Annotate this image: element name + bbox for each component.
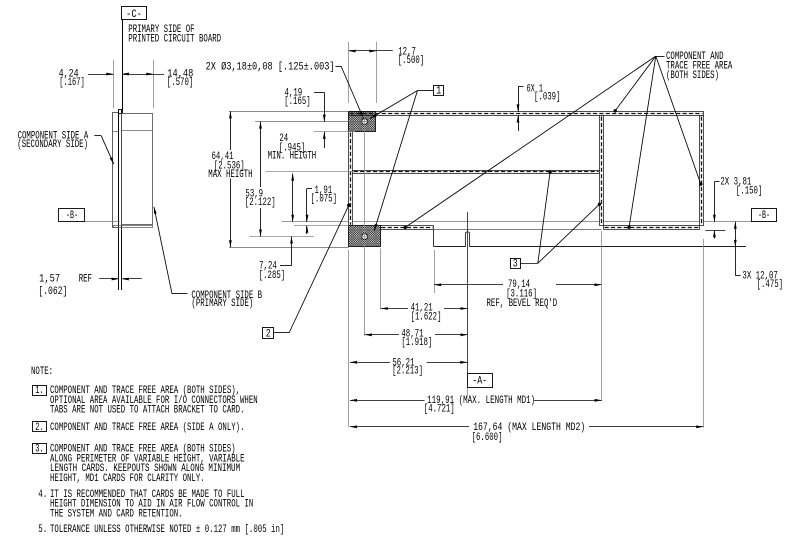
note 1: [33, 386, 47, 396]
svg-text:HEIGHT, MD1 CARDS FOR CLARITY: HEIGHT, MD1 CARDS FOR CLARITY ONLY.: [50, 473, 205, 485]
dimension 56.21 [2.213]: [350, 362, 390, 364]
note 3: [33, 444, 47, 454]
svg-text:TOLERANCE UNLESS OTHERWISE NOT: TOLERANCE UNLESS OTHERWISE NOTED ± 0.127…: [50, 524, 284, 536]
card left keepout strip: [349, 132, 353, 226]
svg-text:[.475]: [.475]: [757, 279, 784, 291]
svg-text:(SECONDARY SIDE): (SECONDARY SIDE): [17, 139, 88, 151]
svg-text:[.570]: [.570]: [167, 77, 194, 89]
extension lines for 12.7: [348, 42, 350, 103]
svg-text:3: 3: [513, 258, 518, 270]
card top keepout strip: [349, 112, 704, 116]
note 2: [33, 422, 47, 432]
middle strip extension line: [266, 171, 353, 173]
svg-text:-C-: -C-: [126, 9, 142, 21]
mounting hole bottom: [362, 234, 368, 240]
divider extension line down: [601, 231, 603, 401]
svg-text:(PRIMARY SIDE): (PRIMARY SIDE): [191, 298, 253, 310]
svg-text:[2.213]: [2.213]: [392, 366, 423, 378]
extension below -A- box: [467, 388, 469, 396]
right bottom tick for 3.81: [705, 230, 725, 232]
bottom-left mounting tab block: [349, 226, 381, 247]
datum -B- label box right: [752, 209, 777, 222]
connector bevel line: [434, 229, 602, 231]
svg-text:(BOTH SIDES): (BOTH SIDES): [666, 70, 719, 82]
svg-text:[.150]: [.150]: [736, 185, 763, 197]
svg-text:5.: 5.: [38, 524, 47, 536]
svg-text:[.167]: [.167]: [59, 77, 84, 89]
connector key notch: [465, 232, 469, 247]
svg-text:-A-: -A-: [472, 375, 487, 387]
svg-text:[1.622]: [1.622]: [411, 312, 442, 324]
tab right edge extension line down: [380, 249, 382, 310]
svg-text:1.: 1.: [35, 385, 44, 397]
card bottom edge extension line left: [294, 225, 349, 227]
card divider keepout strip: [600, 116, 604, 226]
svg-text:THE SYSTEM AND CARD RETENTION.: THE SYSTEM AND CARD RETENTION.: [50, 508, 183, 520]
dimension 41.21 [1.622]: [381, 308, 408, 310]
svg-text:2X Ø3,18±0,08 [.125±.003]: 2X Ø3,18±0,08 [.125±.003]: [206, 62, 335, 74]
svg-text:[.285]: [.285]: [259, 270, 286, 282]
dimension 167.64 MAX LENGTH MD2: [350, 426, 469, 428]
card left edge extension line down: [348, 250, 350, 427]
card bottom step at connector start: [433, 230, 435, 247]
top hole center line: [255, 121, 373, 123]
svg-text:-B-: -B-: [758, 210, 770, 222]
svg-text:COMPONENT AND TRACE FREE AREA: COMPONENT AND TRACE FREE AREA (SIDE A ON…: [50, 422, 245, 434]
svg-text:1,57: 1,57: [39, 273, 60, 285]
svg-text:TABS ARE NOT USED TO ATTACH BR: TABS ARE NOT USED TO ATTACH BRACKET TO C…: [50, 405, 245, 417]
datum -C- centerline: [122, 19, 124, 110]
flag note 3 box with leaders: [511, 259, 521, 269]
svg-text:4.: 4.: [38, 489, 47, 501]
connector step extension line down: [434, 250, 436, 293]
dimension 12.7 [.500] tab width: [349, 50, 393, 52]
svg-text:[.165]: [.165]: [284, 96, 311, 108]
dimension 14.48 [.570]: [122, 74, 164, 76]
svg-text:1: 1: [436, 86, 441, 98]
svg-text:PRINTED CIRCUIT BOARD: PRINTED CIRCUIT BOARD: [128, 34, 221, 46]
svg-text:[.062]: [.062]: [38, 286, 67, 298]
side view bottom plate: [114, 226, 153, 228]
datum -B- line full width: [85, 221, 120, 223]
dimension 79.14 [3.116] REF BEVEL REQ'D: [434, 284, 503, 286]
svg-text:2.: 2.: [35, 422, 44, 434]
svg-text:NOTE:: NOTE:: [31, 366, 53, 378]
svg-text:MIN. HEIGTH: MIN. HEIGTH: [268, 150, 317, 162]
top-left mounting tab block: [349, 112, 376, 132]
extension lines for 4.24 and 14.48: [113, 60, 115, 108]
flag note 1 box with leaders: [434, 86, 444, 96]
svg-text:[.075]: [.075]: [311, 194, 338, 206]
bottom hole center line: [250, 236, 315, 238]
component side A block: [113, 113, 119, 228]
svg-text:[.500]: [.500]: [398, 55, 425, 67]
dimension 48.71 [1.918]: [365, 334, 399, 336]
datum -C- label box: [122, 7, 147, 20]
top edge extension line: [229, 111, 349, 113]
svg-text:3.: 3.: [35, 444, 44, 456]
card right edge extension line down: [703, 239, 705, 428]
svg-text:[1.918]: [1.918]: [401, 337, 432, 349]
hole vertical center line: [364, 116, 366, 336]
svg-text:[4.721]: [4.721]: [424, 403, 455, 415]
tab block bottom extension line: [314, 131, 356, 133]
datum -A- center line: [467, 212, 469, 373]
mounting hole top: [362, 119, 368, 125]
datum -B- label box left: [59, 209, 85, 222]
card right edge keepout strip: [700, 116, 704, 226]
card middle keepout strip: [353, 171, 600, 174]
card bottom-right keepout strip: [604, 226, 700, 230]
card bottom-left keepout strip: [381, 226, 434, 230]
svg-text:-B-: -B-: [66, 210, 78, 222]
connector tab bottom edge: [434, 246, 466, 248]
svg-text:REF, BEVEL REQ'D: REF, BEVEL REQ'D: [487, 298, 558, 310]
datum -A- label box: [468, 374, 493, 388]
svg-text:2: 2: [266, 328, 271, 340]
svg-text:[2.122]: [2.122]: [245, 197, 276, 209]
flag note 2 box with leader: [263, 328, 274, 339]
pcb board bar: [118, 110, 120, 290]
component side B block: [122, 114, 153, 225]
dimension 119.91 MAX LENGTH MD1: [350, 400, 425, 402]
svg-text:REF: REF: [79, 273, 92, 285]
tab bottom extension line: [229, 247, 349, 249]
svg-text:[6.600]: [6.600]: [472, 432, 503, 444]
svg-text:[.039]: [.039]: [534, 91, 561, 103]
